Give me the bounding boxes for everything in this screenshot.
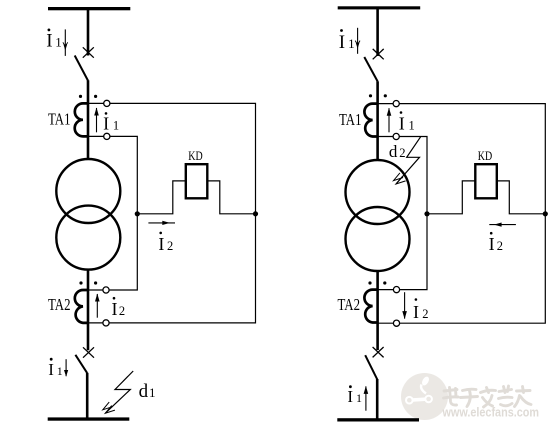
svg-text:I: I <box>413 302 419 322</box>
svg-text:d: d <box>139 381 149 402</box>
svg-text:1: 1 <box>356 391 362 405</box>
svg-text:1: 1 <box>55 35 62 50</box>
svg-text:2: 2 <box>497 239 503 253</box>
svg-text:I: I <box>339 32 345 53</box>
svg-text:I: I <box>489 234 495 254</box>
svg-text:I: I <box>46 31 52 52</box>
svg-text:1: 1 <box>57 364 63 378</box>
svg-text:2: 2 <box>399 146 405 160</box>
svg-text:TA2: TA2 <box>338 295 361 314</box>
svg-text:I: I <box>158 234 164 254</box>
svg-text:TA1: TA1 <box>339 110 362 129</box>
svg-text:I: I <box>399 113 405 133</box>
svg-text:1: 1 <box>409 118 415 132</box>
svg-text:1: 1 <box>348 36 355 51</box>
svg-text:I: I <box>103 113 109 133</box>
svg-text:KD: KD <box>478 149 492 163</box>
svg-text:d: d <box>389 142 398 161</box>
svg-text:TA1: TA1 <box>48 110 71 129</box>
svg-text:1: 1 <box>149 385 156 400</box>
svg-text:KD: KD <box>188 149 202 163</box>
svg-text:www.elecfans.com: www.elecfans.com <box>442 405 539 420</box>
svg-text:1: 1 <box>113 118 119 132</box>
svg-text:2: 2 <box>167 239 173 253</box>
svg-text:TA2: TA2 <box>48 295 71 314</box>
svg-text:2: 2 <box>422 307 428 321</box>
svg-text:2: 2 <box>119 304 125 318</box>
svg-text:I: I <box>48 360 54 379</box>
svg-text:I: I <box>112 299 118 319</box>
svg-text:I: I <box>347 387 353 406</box>
